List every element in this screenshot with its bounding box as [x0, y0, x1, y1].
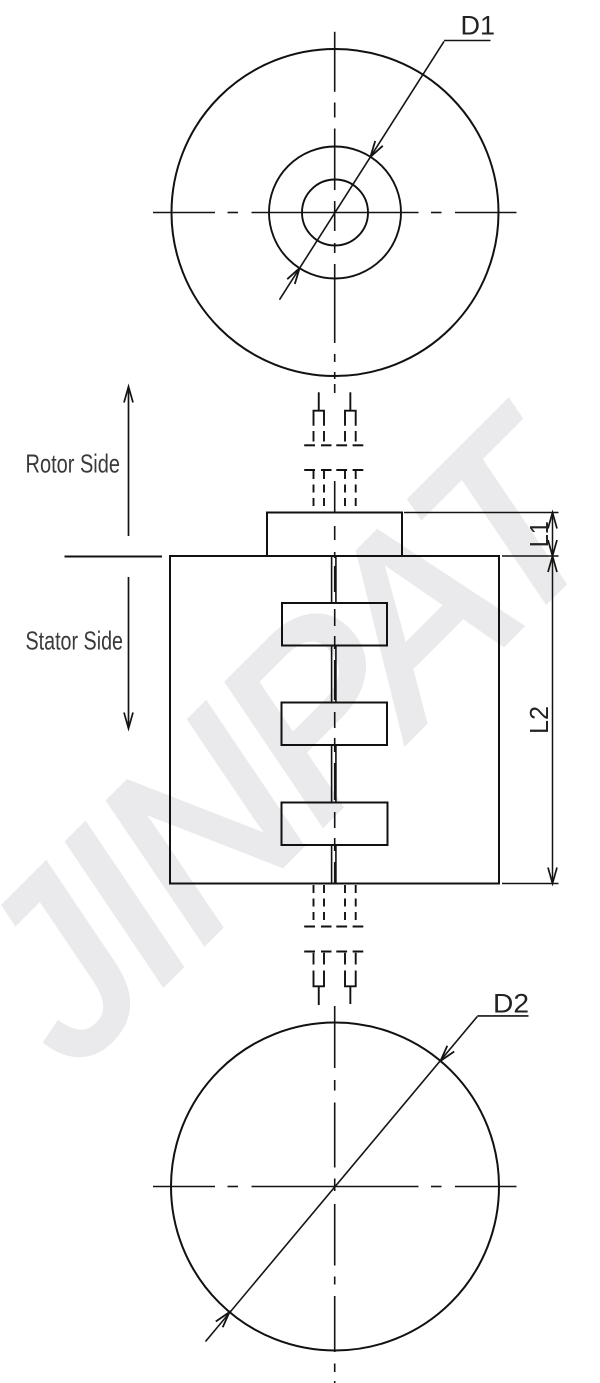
- bottom plug dashed tails: [314, 953, 356, 965]
- arrowhead D2 lower: [216, 1312, 230, 1327]
- top break head bars: [304, 469, 363, 471]
- svg-text:D1: D1: [461, 11, 496, 41]
- horizontal centerline (bottom view): [153, 1186, 517, 1188]
- arrowhead D1 lower: [287, 268, 299, 284]
- inner circle (top view): [302, 180, 368, 246]
- shaft lines segment 3: [332, 745, 336, 803]
- svg-text:L1: L1: [524, 521, 554, 547]
- L1 extension line top: [404, 512, 559, 514]
- arrowhead D1 upper: [370, 141, 382, 157]
- shaft lines segment 1: [332, 557, 336, 603]
- vertical centerline (bottom view): [334, 1006, 336, 1383]
- flange rectangle: [267, 513, 402, 557]
- middle circle (top view): [269, 147, 401, 279]
- top break feet bars: [304, 444, 363, 446]
- centerline above flange: [334, 481, 336, 513]
- arrowhead D2 upper: [441, 1046, 455, 1061]
- L1 dimension line: [552, 513, 554, 557]
- stator body rectangle: [170, 556, 499, 884]
- svg-text:Stator Side: Stator Side: [26, 626, 124, 656]
- top plug dashed tails: [314, 431, 356, 442]
- bottom wire plug right: [345, 971, 356, 1005]
- rotor side arrow: [124, 387, 133, 537]
- centerline through body: [334, 566, 336, 884]
- outer circle (top view): [172, 49, 499, 376]
- L2 arrow up: [548, 556, 557, 572]
- top dashed wires into flange: [314, 471, 356, 513]
- bottom wire plug left: [314, 971, 325, 1006]
- L1 arrow up: [548, 513, 557, 529]
- dimension line D2: [206, 1016, 529, 1342]
- dimension line D1: [280, 41, 491, 300]
- centerline inside flange: [334, 526, 336, 558]
- vertical centerline (top view): [334, 32, 336, 393]
- shaft lines segment 4: [332, 845, 336, 884]
- top wire plug left: [314, 392, 325, 425]
- divider line rotor/stator: [65, 556, 163, 558]
- brush block 1: [282, 603, 387, 646]
- bottom break head bars: [304, 951, 363, 953]
- L2 extension line bottom: [502, 883, 559, 885]
- bottom break feet bars: [304, 926, 363, 928]
- svg-text:Rotor Side: Rotor Side: [26, 449, 121, 479]
- L2 arrow down: [548, 868, 557, 884]
- bottom dashed wires out of body: [314, 885, 356, 924]
- L2 dimension line: [552, 556, 554, 884]
- horizontal centerline (top view): [153, 212, 517, 214]
- L1/L2 extension line middle: [502, 555, 559, 557]
- stator side arrow: [124, 577, 133, 729]
- svg-text:L2: L2: [524, 706, 554, 734]
- brush block 2: [282, 703, 388, 746]
- L1 arrow down: [548, 540, 557, 556]
- shaft lines segment 2: [332, 646, 336, 703]
- top wire plug right: [345, 392, 356, 425]
- outer circle (bottom view): [171, 1023, 499, 1351]
- brush block 3: [282, 803, 388, 846]
- svg-text:D2: D2: [493, 989, 529, 1019]
